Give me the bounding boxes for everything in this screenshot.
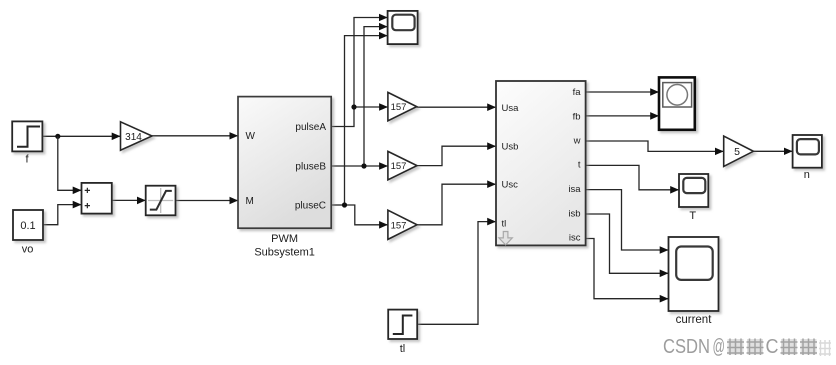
wire w to gain 5 (586, 141, 724, 151)
wire gain 314 output to PWM port W (152, 135, 238, 137)
scope with 3 inputs (388, 11, 418, 44)
svg-text:M: M (246, 196, 254, 207)
gain 314 (121, 122, 153, 150)
svg-text:pluseB: pluseB (295, 162, 326, 173)
svg-text:@: @ (713, 336, 726, 358)
wire t to scope T (586, 165, 679, 189)
svg-text:vo: vo (22, 243, 34, 255)
svg-text:C: C (766, 336, 779, 358)
wire saturation output to PWM port M (175, 200, 238, 202)
fake glyph 我 (727, 339, 744, 356)
gain 157 #1 (388, 92, 417, 120)
svg-text:current: current (676, 314, 713, 326)
wire pluseB branch to scope input 2 (364, 27, 387, 166)
subsystem motor model (496, 81, 586, 245)
gain 5 (724, 136, 754, 166)
node junction pluseC (342, 202, 347, 207)
svg-text:CSDN: CSDN (663, 336, 710, 358)
svg-text:f: f (25, 153, 29, 165)
svg-text:isb: isb (568, 208, 580, 219)
svg-text:tl: tl (502, 218, 507, 229)
node junction pluseB (361, 163, 366, 168)
svg-text:Subsystem1: Subsystem1 (254, 246, 315, 258)
svg-text:fa: fa (573, 87, 582, 98)
wire gain1 to Usa (417, 106, 496, 108)
svg-text:pulseA: pulseA (295, 122, 326, 133)
gray down arrow annotation (499, 232, 512, 245)
svg-text:157: 157 (391, 102, 407, 113)
wire isa to current scope input 1 (586, 190, 669, 250)
faint ghost glyph tail (819, 340, 831, 356)
scope current (669, 237, 719, 326)
wire pluseC branch to scope input 3 (345, 36, 388, 205)
wire gain3 to Usc (417, 184, 496, 225)
svg-text:isc: isc (569, 233, 581, 244)
step source f (12, 121, 42, 165)
constant vo value 0.1 (13, 210, 43, 255)
sum block (82, 183, 112, 214)
wire f branch to sum input 1 (58, 136, 82, 190)
wire pluseB to gain 157 #2 (331, 165, 388, 167)
svg-text:n: n (804, 169, 810, 181)
svg-text:0.1: 0.1 (20, 220, 35, 232)
watermark CSDN (663, 336, 831, 358)
XY graph scope (659, 77, 695, 129)
svg-text:t: t (578, 160, 581, 171)
wire pluseC trunk (331, 204, 344, 206)
gain 157 #3 (388, 210, 417, 239)
wire gain2 to Usb (417, 146, 496, 165)
svg-text:w: w (573, 135, 581, 146)
svg-text:157: 157 (391, 161, 407, 172)
svg-text:157: 157 (391, 220, 407, 231)
svg-text:tl: tl (400, 343, 406, 355)
node junction on f output (55, 134, 60, 139)
node junction pulseA (351, 104, 356, 109)
subsystem PWM Subsystem1 (238, 97, 331, 259)
svg-text:Usa: Usa (502, 103, 520, 114)
wire pulseA branch to scope input 1 (354, 18, 387, 108)
wire gain 5 to scope n (753, 150, 792, 152)
step source tl (388, 310, 417, 355)
fake glyph 程 (800, 339, 817, 356)
wire vo constant to sum input 2 (43, 205, 81, 225)
saturation block (146, 186, 176, 216)
wire f output to gain 314 (43, 135, 121, 137)
svg-text:5: 5 (734, 146, 740, 158)
svg-text:isa: isa (568, 184, 581, 195)
svg-text:Usb: Usb (502, 141, 519, 152)
wire fb to XY scope input 2 (586, 115, 659, 117)
svg-text:pluseC: pluseC (295, 201, 326, 212)
svg-text:Usc: Usc (502, 179, 519, 190)
svg-text:PWM: PWM (271, 233, 298, 245)
fake glyph 编 (781, 339, 798, 356)
svg-text:T: T (689, 210, 696, 222)
fake glyph 爱 (747, 339, 764, 356)
scope T (679, 174, 708, 222)
wire fa to XY scope input 1 (586, 91, 659, 93)
wire isc to current scope input 3 (586, 239, 669, 299)
wire pulseA trunk (331, 107, 354, 127)
svg-text:314: 314 (125, 132, 142, 143)
scope n (793, 135, 822, 181)
wire pulseA to gain 157 #1 (354, 106, 388, 108)
wire sum output to saturation (112, 199, 146, 201)
wire isb to current scope input 2 (586, 214, 669, 273)
wire pluseC to gain 157 #3 (345, 205, 388, 225)
svg-text:W: W (246, 131, 256, 142)
svg-text:fb: fb (573, 111, 581, 122)
gain 157 #2 (388, 151, 417, 180)
wire step tl to port tl (417, 222, 496, 325)
